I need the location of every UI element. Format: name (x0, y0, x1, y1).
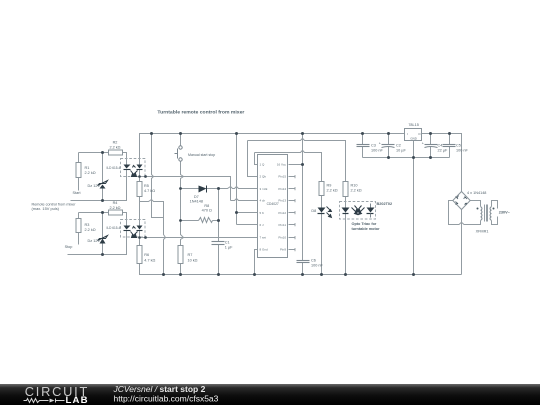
wire opto2 emitter to SET line (139, 231, 141, 238)
wire zener Dz2 cathode down (102, 244, 104, 255)
opto-coupler U3 ILD615-4 (start) dashed box (121, 159, 146, 177)
wire secondary top to 230V terminal (492, 201, 498, 209)
resistor R2 (109, 150, 123, 155)
svg-text:2.2 kΩ: 2.2 kΩ (85, 228, 96, 232)
wire C1 bottom to 0V (218, 245, 220, 275)
wire start channel return (71, 170, 127, 201)
svg-text:C2: C2 (396, 144, 401, 148)
svg-text:230V~: 230V~ (499, 210, 511, 214)
opto-triac U5 triac stubs (370, 204, 372, 218)
opto-triac U5 LED bar (343, 213, 349, 215)
LED D8 emission arrows (327, 207, 332, 218)
wire R1 bottom stub to Start terminal (78, 177, 80, 191)
resistor R3 (76, 219, 81, 233)
svg-text:2.2 kΩ: 2.2 kΩ (327, 189, 338, 193)
wire pin8 Gnd loop down (255, 250, 258, 275)
svg-text:2.2 kΩ: 2.2 kΩ (109, 206, 120, 210)
IC U1 right pin stubs with ticks (289, 175, 296, 251)
svg-text:R6: R6 (144, 253, 149, 257)
svg-text:4.7 kΩ: 4.7 kΩ (144, 189, 155, 193)
opto-coupler U4 ILD615-4 (stop) dashed box (121, 220, 146, 238)
wire C1 top vertical (218, 189, 220, 242)
svg-text:D7: D7 (194, 195, 199, 199)
opto U3 photodiode bar (137, 169, 143, 171)
wire R7 bottom stub (180, 263, 182, 275)
svg-text:C5: C5 (456, 144, 461, 148)
svg-text:Remote control from mixer: Remote control from mixer (32, 203, 77, 207)
wire bridge DC- down to 0V (461, 210, 463, 275)
svg-text:22 µF: 22 µF (438, 148, 448, 152)
svg-text:100 nF: 100 nF (311, 263, 324, 267)
wire R1 top stub (78, 153, 80, 163)
wire +15V top rail left segment (140, 134, 405, 165)
resistor R1 (76, 163, 81, 178)
wire D8 cathode to 0V (321, 213, 323, 275)
svg-text:4 clr: 4 clr (260, 199, 266, 203)
zener diode Dz1 12V (98, 181, 108, 189)
wire zener Dz1 cathode down (102, 189, 104, 201)
svg-text:D8: D8 (311, 209, 316, 213)
transformer XFMR1 core lines (485, 205, 488, 222)
resistor R9 (319, 182, 324, 196)
svg-text:Pin9: Pin9 (280, 247, 286, 251)
wire R8 line right (213, 220, 219, 222)
capacitor C5 plates (443, 145, 456, 147)
wire bridge AC1 left loop (449, 201, 481, 225)
wire R8 line left (181, 220, 199, 222)
opto U3 LED triangle (124, 165, 131, 169)
wire opto triac LED cathode to 0V (345, 213, 347, 275)
svg-text:R3: R3 (85, 223, 90, 227)
wire pin5 line (237, 212, 258, 214)
opto-triac U5 triac triangle (367, 208, 375, 213)
wire R6 bottom stub (139, 238, 141, 246)
svg-text:4.7 kΩ: 4.7 kΩ (144, 259, 155, 263)
logo resistor-diode symbol (24, 399, 65, 403)
wire C2 bottom stub (388, 147, 390, 158)
svg-text:16 Vcc: 16 Vcc (277, 162, 287, 166)
diode D7 1N4148 (199, 186, 207, 193)
svg-text:C3: C3 (371, 144, 376, 148)
svg-text:JCVersnel / start stop 2: JCVersnel / start stop 2 (113, 384, 206, 394)
svg-text:GND: GND (410, 137, 416, 141)
resistor R6 (137, 246, 142, 264)
svg-text:Turntable remote control from: Turntable remote control from mixer (157, 110, 244, 116)
svg-text:Pin14: Pin14 (278, 187, 286, 191)
opto U4 LED triangle (124, 226, 131, 230)
svg-text:ILD 615-4: ILD 615-4 (107, 226, 121, 230)
wire R5 bottom to opto2 collector (139, 197, 141, 226)
svg-text:R4: R4 (113, 201, 118, 205)
svg-text:6 J: 6 J (260, 223, 265, 227)
svg-text:Pin13: Pin13 (278, 199, 286, 203)
wire C4 bottom stub (430, 147, 432, 158)
wire C6 bottom to 0V (302, 263, 304, 275)
capacitor C1 plates (212, 242, 225, 245)
svg-text:Pin15: Pin15 (278, 175, 286, 179)
svg-text:Dz 12V: Dz 12V (88, 239, 101, 243)
svg-text:http://circuitlab.com/cfsx5a3: http://circuitlab.com/cfsx5a3 (114, 394, 219, 404)
wire C3 top stub (362, 134, 364, 145)
wire zener Dz1 branch (102, 153, 104, 184)
svg-text:5 K: 5 K (260, 211, 265, 215)
svg-text:LAB: LAB (66, 395, 88, 405)
wire stop channel top (R3 to opto LED) (79, 213, 127, 226)
wire 0V bottom rail (140, 264, 462, 275)
diode D7 cathode bar (206, 186, 208, 193)
svg-text:R5: R5 (144, 184, 149, 188)
wire SET line (pin7) with hops (140, 237, 258, 239)
wire +15V top rail right segment to bridge (422, 134, 462, 192)
svg-text:R9: R9 (327, 184, 332, 188)
wire stop channel return (68, 231, 127, 255)
svg-text:2 Qb: 2 Qb (260, 175, 267, 179)
wire ground bus of filter caps (363, 157, 450, 159)
wire rail to J/K vertical x236.6 (236, 134, 238, 225)
opto U3 LED cathode bar (124, 169, 131, 171)
svg-text:1N4148: 1N4148 (190, 200, 203, 204)
capacitor C2 plates (electrolytic) (382, 145, 395, 148)
svg-text:Stop: Stop (65, 245, 73, 249)
wire R5 bottom branch right (140, 200, 166, 275)
svg-text:10 µF: 10 µF (396, 148, 406, 152)
svg-text:10 kΩ: 10 kΩ (188, 259, 198, 263)
svg-text:Pin12: Pin12 (278, 211, 286, 215)
capacitor C4 plates (electrolytic) (425, 145, 438, 148)
svg-text:(max. 15V puls): (max. 15V puls) (32, 207, 60, 211)
wire zener Dz2 branch (102, 213, 104, 239)
svg-text:turntable motor: turntable motor (352, 227, 381, 231)
resistor R7 (178, 246, 183, 264)
bridge rectifier D1-D4 diamond (453, 192, 470, 210)
wire pin2 Qbar loop up (248, 141, 258, 177)
wire R10 bottom to opto triac LED (345, 197, 347, 208)
svg-text:4 x 1N4148: 4 x 1N4148 (467, 191, 486, 195)
opto U3 coupling arrows (131, 166, 138, 177)
svg-text:2.2 kΩ: 2.2 kΩ (109, 145, 120, 149)
wire D7 clock line (pin3) with hops (181, 187, 258, 189)
regulator U2 78L15 body (405, 129, 422, 141)
switch SW1 manual start stop (175, 146, 183, 161)
wire C5 bottom stub (449, 147, 451, 158)
zener diode Dz2 12V (98, 236, 108, 244)
opto-triac U5 triac bar (367, 213, 374, 215)
svg-text:Pin10: Pin10 (278, 235, 286, 239)
svg-text:R2: R2 (113, 140, 118, 144)
capacitor C3 plates (357, 145, 370, 147)
wire C3 bottom stub (362, 147, 364, 158)
opto U4 LED cathode bar (124, 230, 131, 232)
svg-text:100 nF: 100 nF (371, 148, 384, 152)
wire switch bottom through hops down to R7 (181, 162, 184, 246)
svg-text:3 =clk: 3 =clk (260, 187, 268, 191)
LED D8 triangle (318, 208, 326, 213)
wire switch top from rail (180, 134, 182, 147)
svg-text:ILD 615-4: ILD 615-4 (107, 166, 121, 170)
resistor R4 (109, 210, 123, 215)
wire W1 Q line to R9 with hop (255, 150, 322, 181)
svg-text:R8: R8 (204, 204, 209, 208)
svg-text:CD4027: CD4027 (267, 202, 279, 206)
wire W2 Qbar line to R10 with hop (248, 138, 346, 181)
svg-text:R1: R1 (85, 166, 90, 170)
wire R5 top stub (139, 177, 141, 182)
wire pin4 line into IC (231, 199, 258, 201)
wire pin1 Q loop up (255, 153, 258, 165)
svg-text:R7: R7 (188, 253, 193, 257)
svg-text:100 nF: 100 nF (456, 148, 469, 152)
svg-text:470 Ω: 470 Ω (202, 209, 212, 213)
wire R3 bottom stub to Stop terminal (78, 233, 80, 245)
svg-text:Manual start stop: Manual start stop (188, 153, 215, 157)
svg-text:7 set: 7 set (260, 235, 267, 239)
svg-text:C1: C1 (225, 241, 230, 245)
bridge rectifier internal diode marks (456, 196, 468, 205)
svg-text:C6: C6 (311, 259, 316, 263)
opto U3 photodiode triangle (137, 165, 143, 169)
wire rail to node B (x151) (152, 134, 164, 218)
svg-text:Opto Triac for: Opto Triac for (352, 222, 377, 226)
svg-text:2.2 kΩ: 2.2 kΩ (85, 171, 96, 175)
opto-triac U5 LED triangle (342, 208, 350, 213)
svg-text:Dz 12V: Dz 12V (88, 184, 101, 188)
opto-triac U5 coupling arrows (352, 206, 365, 215)
resistor R5 (137, 182, 142, 197)
capacitor C6 plates (297, 261, 310, 263)
wire R3 top stub (78, 213, 80, 219)
wire regulator GND down (413, 141, 415, 275)
svg-text:Pin11: Pin11 (279, 223, 287, 227)
svg-text:1 µF: 1 µF (225, 245, 233, 249)
wire R9 bottom to LED D8 (321, 196, 323, 208)
wire C4 top stub (430, 134, 432, 145)
svg-text:R10: R10 (351, 184, 358, 188)
wire Vcc vertical x303 rail to C6 (302, 134, 304, 261)
wire pin16 Vcc to x303 (289, 164, 303, 166)
svg-text:1 Q: 1 Q (260, 162, 266, 166)
transformer XFMR1 primary winding (481, 207, 482, 220)
wire node RST horizontal (opto1 to pin4 loop) (140, 177, 231, 201)
resistor R8 zigzag (199, 218, 213, 223)
svg-text:78L15: 78L15 (408, 123, 419, 127)
transformer XFMR1 secondary winding (490, 207, 491, 220)
svg-text:B202T02: B202T02 (377, 202, 393, 206)
wire C2 top stub (388, 134, 390, 145)
opto-triac U5 dashed box (340, 202, 376, 220)
svg-text:Start: Start (72, 191, 81, 195)
svg-text:2.2 kΩ: 2.2 kΩ (351, 189, 362, 193)
opto U4 photodiode bar (137, 230, 143, 232)
wire start channel top (R1 to opto LED) (79, 153, 127, 165)
svg-text:C4: C4 (438, 144, 443, 148)
op-amp(IC) U1 CD4027 body (258, 155, 288, 258)
resistor R10 (343, 182, 348, 197)
svg-text:8 Gnd: 8 Gnd (260, 247, 269, 251)
wire secondary bottom to 230V terminal (492, 217, 498, 225)
wire pin6 line (237, 224, 258, 226)
wire bridge AC2 to primary top (470, 201, 481, 207)
opto U4 photodiode triangle (137, 226, 143, 230)
wire opto1 phototransistor emitter to node RST (139, 170, 141, 177)
opto U4 coupling arrows (131, 227, 138, 238)
LED D8 cathode bar (318, 213, 325, 215)
junction dots (101, 132, 451, 276)
svg-text:XFMR1: XFMR1 (476, 229, 489, 233)
transformer polarity dots (477, 208, 495, 210)
wire C5 top stub (449, 134, 451, 145)
